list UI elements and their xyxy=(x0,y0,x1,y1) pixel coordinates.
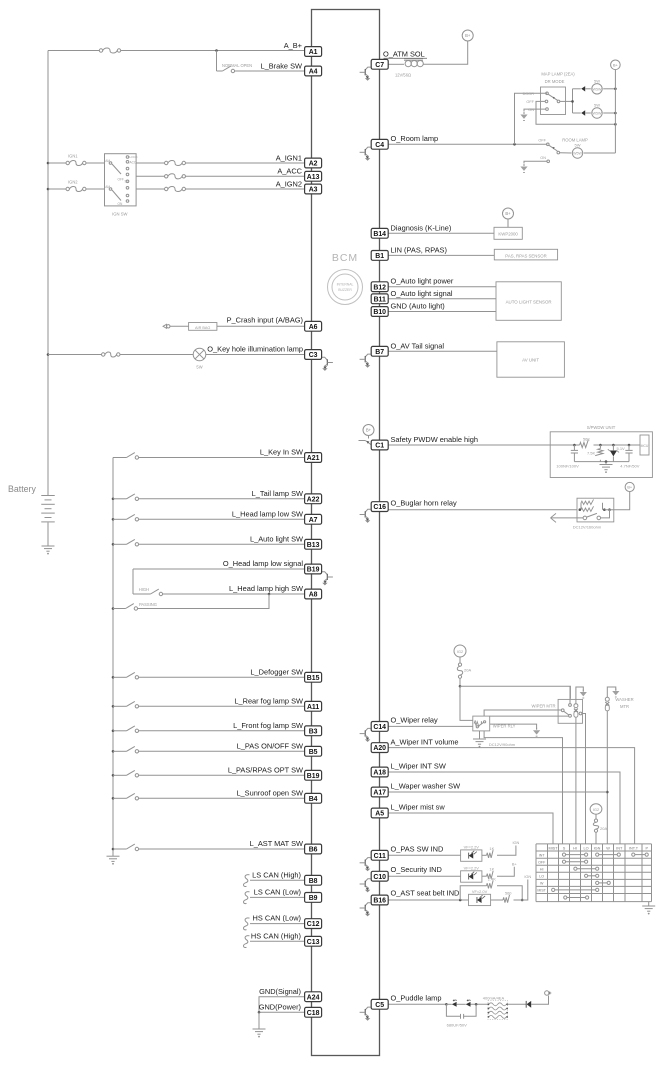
svg-text:O_AST seat belt IND: O_AST seat belt IND xyxy=(391,888,460,897)
svg-text:L_Head lamp high SW: L_Head lamp high SW xyxy=(229,584,303,593)
contact OFF xyxy=(526,100,547,104)
wire switch to pin B13 xyxy=(139,543,305,545)
svg-text:KWP2000: KWP2000 xyxy=(498,232,518,237)
airbag connector xyxy=(163,324,170,328)
node bus passing xyxy=(112,607,115,610)
svg-text:ROOM LAMP: ROOM LAMP xyxy=(562,137,588,142)
wire B1 to PAS RPAS sensor xyxy=(388,254,494,256)
svg-text:C4: C4 xyxy=(375,142,384,149)
svg-text:20A: 20A xyxy=(600,826,607,831)
switch L_Auto light SW xyxy=(127,539,139,546)
wire ON to ground xyxy=(524,109,546,111)
wire switch to pin A11 xyxy=(139,705,305,707)
label L_PAS/RPAS OPT SW xyxy=(228,766,303,775)
wire C7 to solenoid xyxy=(388,63,404,65)
label DC12V/90ohm xyxy=(489,742,516,747)
DR MODE blade xyxy=(548,94,557,100)
wire feed into top contact xyxy=(569,686,571,703)
lamp branch xyxy=(572,89,574,113)
wire to pin A2 xyxy=(186,162,305,164)
wire relay to S column xyxy=(484,731,562,844)
MCU box xyxy=(640,435,649,455)
svg-text:A2: A2 xyxy=(309,161,318,168)
diode map lamp 2 xyxy=(581,110,585,115)
switch L_Defogger SW xyxy=(127,672,139,679)
label 400mA 4EA xyxy=(483,996,505,1001)
label HIGH xyxy=(139,587,149,592)
svg-text:ON: ON xyxy=(528,108,534,112)
fuse ACC out xyxy=(165,174,186,179)
label L_Sunroof open SW xyxy=(236,789,303,798)
room lamp bulb xyxy=(572,148,582,158)
pin C4 xyxy=(371,139,388,149)
fuse IGN2 out xyxy=(165,186,186,191)
node gnd join xyxy=(258,1011,261,1014)
HIGH switch xyxy=(151,589,163,596)
spwdw ground xyxy=(600,462,613,473)
svg-text:O_Wiper relay: O_Wiper relay xyxy=(391,715,439,724)
svg-text:5W: 5W xyxy=(594,78,600,83)
wire C16 to relay xyxy=(388,509,577,511)
pin B4 xyxy=(305,793,322,803)
svg-text:GND(Signal): GND(Signal) xyxy=(259,987,301,996)
svg-text:MTR: MTR xyxy=(620,704,629,709)
svg-text:5W: 5W xyxy=(594,103,600,108)
wire C10 to LED xyxy=(388,875,460,877)
node rail gnd xyxy=(605,460,608,463)
svg-text:O_Auto light signal: O_Auto light signal xyxy=(391,289,453,298)
svg-text:O_Buglar horn relay: O_Buglar horn relay xyxy=(391,499,457,508)
svg-text:B5: B5 xyxy=(309,749,318,756)
switch bus xyxy=(112,458,114,857)
label 4.7NF/50V xyxy=(620,464,639,469)
wire A20 volume xyxy=(388,748,634,844)
B+ supply C1 xyxy=(363,425,374,436)
node brake tap xyxy=(215,49,218,52)
table ground xyxy=(642,902,655,915)
wire relay aux to ground xyxy=(490,724,537,729)
svg-text:B13: B13 xyxy=(307,542,320,549)
svg-text:LS CAN (Low): LS CAN (Low) xyxy=(254,887,301,896)
svg-text:A11: A11 xyxy=(307,704,319,711)
driver transistor at C3 xyxy=(322,357,333,371)
wire relay to motor upper xyxy=(484,710,561,716)
node puddle a xyxy=(445,1003,448,1006)
svg-text:IG2: IG2 xyxy=(457,650,463,654)
label HS CAN (High) xyxy=(251,931,301,940)
wire switch to pin B4 xyxy=(139,797,305,799)
map lamp 1 xyxy=(592,84,602,94)
cap 100NF branch xyxy=(571,445,578,462)
svg-text:GND(Power): GND(Power) xyxy=(259,1003,301,1012)
svg-text:INT.T: INT.T xyxy=(629,847,639,851)
wire LS CAN (High) xyxy=(250,879,305,881)
driver transistor at C16 xyxy=(360,509,371,523)
switch L_Tail lamp SW xyxy=(127,494,139,501)
label O_ATM SOL xyxy=(383,50,427,59)
C1 internal contact xyxy=(359,436,372,445)
wire diode1 to bulb1 xyxy=(585,88,591,90)
svg-text:O_Security IND: O_Security IND xyxy=(391,865,442,874)
node lamp branch xyxy=(571,100,574,103)
svg-text:7.5K: 7.5K xyxy=(587,451,596,456)
wire solenoid to B+ xyxy=(423,41,468,64)
wire B7 to AV unit xyxy=(388,350,497,352)
svg-text:MCU: MCU xyxy=(641,444,649,448)
B+ supply KWP xyxy=(503,208,514,219)
svg-text:B12: B12 xyxy=(373,284,386,291)
label IGN C11 xyxy=(512,840,519,845)
pin B3 xyxy=(305,726,322,736)
svg-text:C5: C5 xyxy=(375,1002,384,1009)
relay contact xyxy=(583,513,600,519)
switch L_Key In SW xyxy=(127,453,139,460)
svg-text:B16: B16 xyxy=(373,898,386,905)
svg-text:A22: A22 xyxy=(307,496,320,503)
pin A2 xyxy=(305,158,322,168)
svg-text:B+: B+ xyxy=(627,486,633,490)
node bus B19 xyxy=(112,774,115,777)
label Diagnosis (K-Line) xyxy=(391,223,452,232)
wire A17 washer sw xyxy=(388,791,607,793)
wire switch to pin B15 xyxy=(139,676,305,678)
svg-text:20A: 20A xyxy=(464,668,471,673)
label 5W room xyxy=(575,143,581,148)
B+ supply room xyxy=(611,60,621,70)
pin C11 xyxy=(371,850,388,860)
wire to pin A3 xyxy=(186,188,305,190)
resistor 56K xyxy=(580,437,591,448)
ground washer motor xyxy=(612,689,619,698)
svg-text:C14: C14 xyxy=(373,724,386,731)
svg-text:2.4K: 2.4K xyxy=(488,876,496,881)
svg-text:B+: B+ xyxy=(505,211,511,216)
wire bus to PASSING switch xyxy=(113,608,126,610)
fuse IGN2 xyxy=(66,186,86,191)
wire brake switch to pin A4 xyxy=(235,70,305,72)
label PASSING xyxy=(139,602,157,607)
PAS RPAS SENSOR box xyxy=(494,249,557,260)
svg-text:INT: INT xyxy=(616,847,623,851)
svg-text:C16: C16 xyxy=(373,504,386,511)
wire brake drop xyxy=(216,51,218,72)
wire relay to B+ xyxy=(604,492,629,510)
svg-text:HIGH: HIGH xyxy=(139,587,149,592)
wire diode2 to block xyxy=(471,1003,489,1005)
map lamp 2 xyxy=(592,108,602,118)
svg-text:MAP LAMP (2EA): MAP LAMP (2EA) xyxy=(541,71,575,76)
svg-text:LO: LO xyxy=(539,875,544,879)
cap 4.7NF branch xyxy=(625,445,632,462)
room OFF contact xyxy=(538,139,549,146)
pin C14 xyxy=(371,722,388,732)
pin C3 xyxy=(305,350,322,360)
DR MODE common xyxy=(557,100,560,103)
svg-text:A_ACC: A_ACC xyxy=(277,167,302,176)
puddle diode 1 xyxy=(452,999,457,1006)
wire C11 to LED xyxy=(388,854,460,856)
wire PASSING to A8 line xyxy=(138,594,269,609)
wire B11 xyxy=(388,298,496,300)
pin B7 xyxy=(371,346,388,356)
wire common to room lamp xyxy=(560,152,572,154)
wiper motor xyxy=(558,699,582,723)
puddle diode 2 xyxy=(466,999,471,1006)
wire spwdw mid xyxy=(594,444,641,446)
label L_Defogger SW xyxy=(250,668,303,677)
label O_AV Tail signal xyxy=(391,341,445,350)
label A_IGN1 xyxy=(276,153,302,162)
label O_PAS SW IND xyxy=(391,844,444,853)
wire washer W column xyxy=(606,711,608,844)
twisted pair symbol C12 xyxy=(243,918,249,930)
resistor block xyxy=(488,1001,509,1020)
label O_Head lamp low signal xyxy=(223,559,303,568)
label 5W keyhole xyxy=(196,365,202,370)
svg-text:A20: A20 xyxy=(373,745,386,752)
svg-text:DC12V/90ohm: DC12V/90ohm xyxy=(489,742,516,747)
label IGN2 xyxy=(68,180,78,185)
label L_Waper washer SW xyxy=(391,782,461,791)
svg-text:AUTO LIGHT SENSOR: AUTO LIGHT SENSOR xyxy=(506,299,552,304)
node rail lamp2 xyxy=(614,112,617,115)
svg-text:5W: 5W xyxy=(196,365,202,370)
wire switch to pin B19 xyxy=(139,774,305,776)
label GND(Power) xyxy=(259,1003,301,1012)
pin A4 xyxy=(305,66,322,76)
wire between diodes xyxy=(457,1003,466,1005)
svg-text:C11: C11 xyxy=(374,853,386,860)
svg-text:DR MODE: DR MODE xyxy=(545,79,565,84)
wire B19 drop xyxy=(132,569,134,594)
node door feed xyxy=(513,143,516,146)
svg-text:S: S xyxy=(563,847,566,851)
battery cells xyxy=(41,496,55,522)
svg-text:A_IGN1: A_IGN1 xyxy=(276,153,302,162)
label 5W map2 xyxy=(594,103,600,108)
node keyhole tap xyxy=(47,353,50,356)
wire keyhole left xyxy=(48,354,102,356)
room ON contact xyxy=(540,156,549,163)
KWP2000 box xyxy=(494,227,522,239)
svg-text:L_Key In SW: L_Key In SW xyxy=(260,448,303,457)
svg-text:B+: B+ xyxy=(465,33,471,38)
wire room lamp to rail xyxy=(584,152,616,154)
svg-text:P: P xyxy=(645,847,648,851)
wire feed to motor xyxy=(460,686,570,699)
wire IG2 to fuse xyxy=(459,657,461,663)
wire to diode1 xyxy=(446,1003,451,1005)
svg-text:C1: C1 xyxy=(375,443,384,450)
label 100NF/100V xyxy=(556,464,579,469)
svg-text:IGN2: IGN2 xyxy=(68,180,78,185)
label 12V/56ohm xyxy=(395,72,411,77)
wire HS CAN (High) xyxy=(250,940,305,942)
svg-text:O_Key hole illumination lamp: O_Key hole illumination lamp xyxy=(207,344,303,353)
svg-text:VF=2.2V: VF=2.2V xyxy=(464,865,480,870)
svg-text:B1: B1 xyxy=(375,253,384,260)
BCM module box xyxy=(312,10,380,1056)
switch L_Rear fog lamp SW xyxy=(127,701,139,708)
wire inside spwdw xyxy=(550,444,579,446)
svg-text:HI: HI xyxy=(573,847,577,851)
svg-text:IGN: IGN xyxy=(594,847,601,851)
node IGN1 tap xyxy=(47,162,50,165)
wire block to diode3 xyxy=(508,1003,527,1005)
svg-text:O_Head lamp low signal: O_Head lamp low signal xyxy=(223,559,303,568)
svg-text:O_ATM SOL: O_ATM SOL xyxy=(383,50,425,59)
svg-text:PAS, RPAS SENSOR: PAS, RPAS SENSOR xyxy=(505,254,546,259)
wire C14 to relay xyxy=(388,725,473,727)
pin A18 xyxy=(371,767,388,777)
label S/PWDW UNIT xyxy=(587,425,616,430)
label O_Room lamp xyxy=(391,134,439,143)
svg-text:BCM: BCM xyxy=(332,252,358,264)
washer motor xyxy=(605,697,609,711)
resistor 1K C11 xyxy=(487,846,495,858)
svg-text:A5: A5 xyxy=(375,811,384,818)
svg-text:WASHER: WASHER xyxy=(615,697,633,702)
parallel 2.4K xyxy=(460,876,522,900)
svg-text:IG2: IG2 xyxy=(593,808,599,812)
svg-text:LS CAN (High): LS CAN (High) xyxy=(252,870,301,879)
svg-text:MIST: MIST xyxy=(548,847,558,851)
svg-text:INTERNAL: INTERNAL xyxy=(337,283,354,287)
svg-text:B19: B19 xyxy=(307,567,320,574)
driver transistor at C10 xyxy=(360,879,371,893)
wire feed to relay xyxy=(460,686,473,720)
svg-text:B3: B3 xyxy=(309,728,318,735)
pin C1 xyxy=(371,440,388,450)
svg-text:A_IGN2: A_IGN2 xyxy=(276,179,302,188)
wire switch to pin A7 xyxy=(139,518,305,520)
svg-text:W: W xyxy=(540,882,544,886)
wire motor gnd xyxy=(576,687,583,704)
svg-text:BUZZER: BUZZER xyxy=(338,288,352,292)
label LIN (PAS, RPAS) xyxy=(391,245,447,254)
driver transistor at C5 xyxy=(360,1007,371,1021)
contact DOOR xyxy=(523,92,549,96)
resistor 1K C10 xyxy=(487,867,495,879)
wire motor LO column xyxy=(582,714,586,844)
label L_PAS ON/OFF SW xyxy=(237,742,303,751)
B+ rail xyxy=(614,70,616,154)
wire IGN2 fuse to IGN SW xyxy=(86,188,105,190)
table contacts xyxy=(552,853,649,899)
AV UNIT box xyxy=(497,342,565,377)
wiper relay xyxy=(473,716,490,731)
node bus B13 xyxy=(112,543,115,546)
label DC12V/160ohm xyxy=(573,524,602,529)
pin B10 xyxy=(371,307,388,317)
svg-text:VF=2.2V: VF=2.2V xyxy=(464,844,480,849)
pin A8 xyxy=(305,589,322,599)
label L_Head lamp low SW xyxy=(232,510,303,519)
wire A5 mist sw xyxy=(388,813,553,844)
svg-text:O_Puddle lamp: O_Puddle lamp xyxy=(391,993,442,1002)
B+ supply ATM xyxy=(462,30,473,41)
svg-text:A_Wiper INT volume: A_Wiper INT volume xyxy=(391,738,459,747)
wire AIR BAG to pin A6 xyxy=(217,325,305,327)
node coil out xyxy=(603,508,606,511)
wire door feed riser xyxy=(515,93,548,144)
pin A20 xyxy=(371,743,388,753)
label IGN B16 xyxy=(524,874,531,879)
svg-text:AM: AM xyxy=(105,159,110,163)
wire contact left arrow xyxy=(551,513,584,522)
svg-text:OFF: OFF xyxy=(538,860,546,864)
label O_Security IND xyxy=(391,865,442,874)
pin B1 xyxy=(371,251,388,261)
B+ supply buglar xyxy=(625,482,634,491)
label A_B+ xyxy=(284,41,302,50)
svg-text:A17: A17 xyxy=(373,790,386,797)
svg-text:L_AST MAT SW: L_AST MAT SW xyxy=(250,839,303,848)
svg-text:B4: B4 xyxy=(309,796,318,803)
svg-text:IGN1: IGN1 xyxy=(68,154,78,159)
node bus B6 xyxy=(112,848,115,851)
node bus B5 xyxy=(112,750,115,753)
pin B6 xyxy=(305,844,322,854)
BCM label xyxy=(332,252,358,264)
svg-text:A_B+: A_B+ xyxy=(284,41,302,50)
wire bus to switch B4 xyxy=(113,797,127,799)
label O_AST seat belt IND xyxy=(391,888,460,897)
label B+ C10 xyxy=(512,861,518,866)
wire common to lamps xyxy=(560,100,573,102)
svg-text:ST.: ST. xyxy=(125,180,130,184)
node B16 left xyxy=(459,899,462,902)
label 20A column xyxy=(600,826,607,831)
diode map lamp 1 xyxy=(581,86,585,91)
label O_Wiper relay xyxy=(391,715,439,724)
svg-text:L_Rear fog lamp SW: L_Rear fog lamp SW xyxy=(234,697,303,706)
table header xyxy=(548,847,648,851)
pin B9 xyxy=(305,893,322,903)
node washer join xyxy=(606,791,609,794)
B+ terminal puddle xyxy=(545,991,552,995)
svg-text:IGN SW: IGN SW xyxy=(112,212,127,217)
wire connector to AIR BAG box xyxy=(170,325,189,327)
svg-text:B8: B8 xyxy=(309,878,318,885)
node puddle b xyxy=(475,1003,478,1006)
label 680UF/50V xyxy=(447,1023,468,1028)
wire switch to pin B6 xyxy=(139,848,305,850)
wire IGN2 to fuse xyxy=(48,188,66,190)
wire IGN1 fuse to IGN SW xyxy=(86,162,105,164)
label O_Auto light signal xyxy=(391,289,453,298)
fuse IGN1 out xyxy=(165,160,186,165)
pin C18 xyxy=(305,1007,322,1017)
node spwdw c xyxy=(612,444,615,447)
wire A18 int sw xyxy=(388,772,620,844)
svg-text:A18: A18 xyxy=(373,770,386,777)
svg-text:C7: C7 xyxy=(375,62,384,69)
svg-text:O_Room lamp: O_Room lamp xyxy=(391,134,439,143)
wire C11 to IGN rail xyxy=(497,846,516,856)
wire C4 to lamp switch xyxy=(388,143,547,145)
svg-text:1K: 1K xyxy=(489,867,494,872)
pin B5 xyxy=(305,746,322,756)
svg-text:LOCK: LOCK xyxy=(130,155,138,159)
wire switch to pin A22 xyxy=(139,498,305,500)
wire GND(Signal) xyxy=(259,997,305,1013)
svg-text:B+: B+ xyxy=(613,63,619,67)
svg-text:B7: B7 xyxy=(375,349,384,356)
AIR BAG box xyxy=(189,323,217,331)
label GND (Auto light) xyxy=(391,302,445,311)
node bus B3 xyxy=(112,730,115,733)
